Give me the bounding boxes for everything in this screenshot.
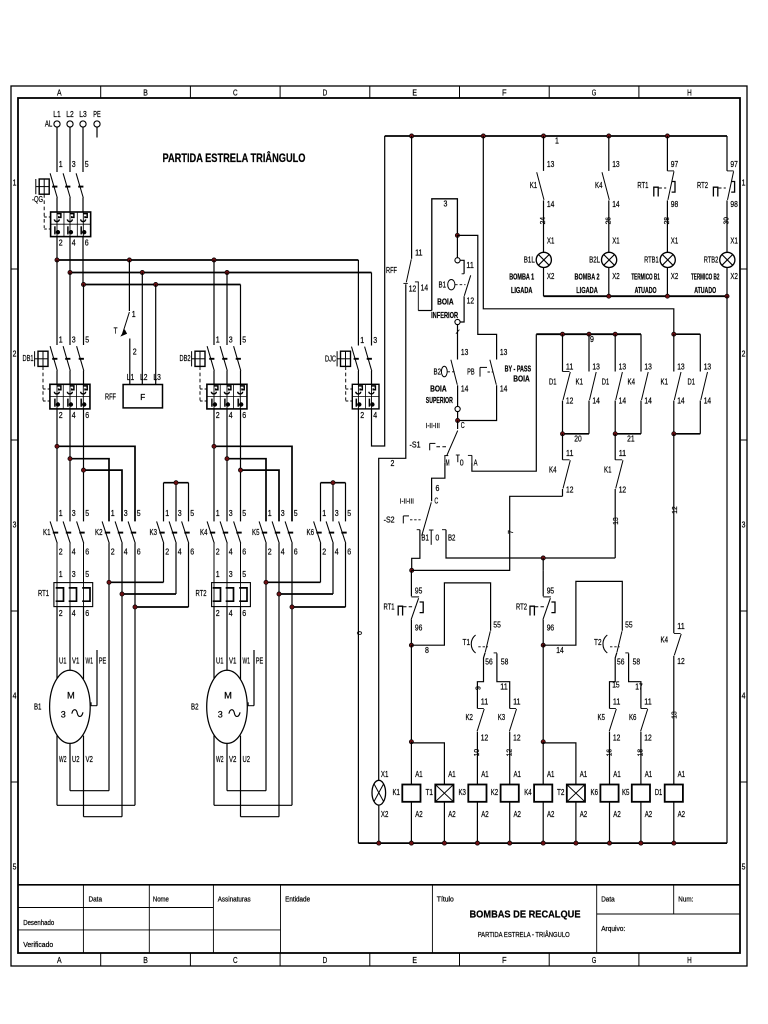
wire rail to RFF contact <box>411 136 413 259</box>
jumper K5-K6 a <box>266 581 321 583</box>
svg-text:RTB2: RTB2 <box>704 255 719 264</box>
breaker DB1 operator <box>38 351 48 366</box>
DJC operator link <box>345 366 347 400</box>
svg-text:5: 5 <box>242 509 246 518</box>
svg-text:K4: K4 <box>549 466 557 475</box>
row boundary ticks <box>11 268 18 270</box>
svg-text:95: 95 <box>415 586 423 595</box>
wire B1 bypass <box>457 235 496 359</box>
S1 terminal 0 <box>456 454 460 456</box>
svg-text:4: 4 <box>281 548 285 557</box>
svg-text:11: 11 <box>500 683 508 692</box>
svg-text:3: 3 <box>229 570 233 579</box>
svg-text:4: 4 <box>13 692 17 701</box>
svg-text:14: 14 <box>547 200 555 209</box>
svg-text:U2: U2 <box>243 755 251 764</box>
svg-text:B2L: B2L <box>589 255 600 264</box>
wire K2-4 down <box>121 543 123 817</box>
svg-text:21: 21 <box>627 435 635 444</box>
svg-text:X2: X2 <box>671 272 679 281</box>
svg-text:11: 11 <box>677 622 685 631</box>
svg-text:B1: B1 <box>439 280 447 289</box>
DJC overload block <box>352 384 379 409</box>
svg-text:13: 13 <box>592 363 600 372</box>
svg-text:A1: A1 <box>514 770 522 779</box>
svg-text:1: 1 <box>216 509 220 518</box>
svg-text:30: 30 <box>722 217 731 224</box>
svg-text:A: A <box>474 459 478 468</box>
svg-text:3: 3 <box>281 509 285 518</box>
QG operator link <box>43 194 45 228</box>
svg-text:K5: K5 <box>622 788 630 797</box>
svg-text:14: 14 <box>612 200 620 209</box>
svg-text:D: D <box>323 88 328 98</box>
S1 terminal A <box>468 454 472 456</box>
wire S2-B1 down <box>412 530 420 571</box>
svg-text:4: 4 <box>335 548 339 557</box>
svg-text:12: 12 <box>566 486 574 495</box>
bridge to T1 contact <box>411 583 490 645</box>
svg-text:1: 1 <box>132 310 136 319</box>
wire L3 to QG <box>82 127 84 172</box>
svg-text:Assinaturas: Assinaturas <box>218 896 251 903</box>
wire bus L3 to RFF L3 <box>155 285 157 385</box>
wire B2-U2 down <box>240 736 242 817</box>
breaker DJC operator <box>341 351 351 366</box>
wire K5-4 down <box>278 543 280 817</box>
svg-text:C: C <box>434 496 438 505</box>
svg-text:B2: B2 <box>448 533 456 542</box>
title block grid <box>18 884 740 886</box>
svg-text:K6: K6 <box>629 713 637 722</box>
contact D1 NO (node 21 branch) <box>614 334 616 371</box>
svg-text:-QG: -QG <box>32 195 43 204</box>
svg-text:5: 5 <box>85 335 89 344</box>
svg-text:RT1: RT1 <box>384 603 395 612</box>
wire B2 to C <box>457 412 459 421</box>
svg-text:C: C <box>233 955 238 965</box>
svg-text:B1: B1 <box>34 703 42 712</box>
svg-text:A1: A1 <box>613 770 621 779</box>
svg-text:INFERIOR: INFERIOR <box>431 311 458 320</box>
svg-text:2: 2 <box>59 411 63 420</box>
contact D1 NC (node 20 branch) <box>562 334 564 371</box>
node dot manual <box>410 568 414 572</box>
svg-text:SUPERIOR: SUPERIOR <box>426 396 453 405</box>
svg-text:D1: D1 <box>655 788 663 797</box>
contact K4 NO (node 21 branch) <box>640 334 642 371</box>
wire S1-A to matrix rail <box>472 334 536 471</box>
wire mark <box>456 330 460 334</box>
svg-text:4: 4 <box>72 239 76 248</box>
jumper DB1 to K2 pole5 <box>57 446 135 521</box>
svg-text:T2: T2 <box>594 638 602 647</box>
svg-text:U1: U1 <box>216 656 224 665</box>
svg-text:3: 3 <box>742 521 746 530</box>
delta jumper B1 b <box>57 804 135 806</box>
svg-text:4: 4 <box>178 548 182 557</box>
wire RFF-14 to node 3 <box>418 310 432 312</box>
wire group to K4 contact <box>673 434 675 633</box>
wire C to S1 <box>457 421 459 430</box>
wire bus L2 end to DJC pole3 <box>371 273 373 346</box>
delta jumper B2 b <box>214 804 292 806</box>
svg-text:T2: T2 <box>557 788 565 797</box>
svg-text:4: 4 <box>72 411 76 420</box>
svg-text:2: 2 <box>360 411 364 420</box>
matrix rail dots <box>560 332 564 336</box>
svg-text:1: 1 <box>360 336 364 345</box>
wire QG blade stubs <box>56 198 58 212</box>
delta jumper B1 c <box>84 816 123 818</box>
wire QG pole1 to bus <box>56 237 58 260</box>
svg-text:6: 6 <box>137 548 141 557</box>
svg-text:DB2: DB2 <box>180 354 191 363</box>
svg-text:5: 5 <box>137 509 141 518</box>
svg-text:A2: A2 <box>481 810 489 819</box>
node 20 bar <box>563 433 590 435</box>
aux contact K3 -> coil K2 <box>497 653 510 708</box>
svg-text:K1: K1 <box>43 528 51 537</box>
svg-text:G: G <box>592 955 597 965</box>
wire K4NC to auto link <box>562 489 564 496</box>
svg-text:0: 0 <box>355 631 364 635</box>
svg-text:3: 3 <box>72 570 76 579</box>
svg-text:3: 3 <box>124 509 128 518</box>
svg-text:58: 58 <box>501 658 509 667</box>
svg-text:BOIA: BOIA <box>437 298 454 307</box>
DJC linkage dashes <box>354 358 359 360</box>
contact RFF blade <box>406 259 411 282</box>
svg-text:7: 7 <box>506 530 515 534</box>
wire B2-W2 down <box>213 735 215 805</box>
lamp return rail <box>544 295 728 297</box>
wire B1-W2 down <box>56 735 58 805</box>
svg-text:3: 3 <box>178 509 182 518</box>
svg-text:13: 13 <box>612 160 620 169</box>
svg-text:5: 5 <box>85 160 89 169</box>
svg-text:5: 5 <box>85 570 89 579</box>
svg-text:D1: D1 <box>549 378 557 387</box>
svg-text:98: 98 <box>730 200 738 209</box>
svg-text:RT2: RT2 <box>516 603 527 612</box>
svg-text:I-II-III: I-II-III <box>426 423 440 430</box>
svg-text:6: 6 <box>294 548 298 557</box>
jumper DB2 to K5 pole5 <box>214 446 292 521</box>
DB2 blade stubs <box>213 371 215 385</box>
svg-text:T: T <box>114 327 118 336</box>
wire K6-4 down <box>332 543 334 594</box>
svg-text:M: M <box>224 691 232 701</box>
neutral rail dots <box>377 841 381 845</box>
wire K5-2 down <box>265 543 267 791</box>
svg-text:K1: K1 <box>661 378 669 387</box>
aux contact K5 -> coil K6 <box>610 653 617 709</box>
contact K1 NC <box>615 459 622 461</box>
selector S2 blade <box>422 502 432 536</box>
thermal contact RT2 95-96 <box>542 570 544 596</box>
svg-text:2: 2 <box>59 239 63 248</box>
svg-text:13: 13 <box>644 363 652 372</box>
svg-text:14: 14 <box>556 646 564 655</box>
float switch B2 pivot circle <box>455 406 460 411</box>
svg-text:15: 15 <box>612 681 620 690</box>
wire S2-B2 line <box>446 530 615 558</box>
svg-text:2: 2 <box>268 548 272 557</box>
svg-text:A2: A2 <box>580 810 588 819</box>
wire DB1-2 to K1 pole1 <box>56 409 58 522</box>
thermal contact RT1 95-96 <box>410 570 412 596</box>
svg-text:1: 1 <box>742 179 746 188</box>
svg-text:12: 12 <box>677 657 685 666</box>
contact K1 NO (alternation) <box>673 334 675 371</box>
svg-text:DJC: DJC <box>325 355 336 364</box>
svg-text:A1: A1 <box>448 770 456 779</box>
svg-text:A2: A2 <box>547 810 555 819</box>
coil K5 <box>632 785 650 802</box>
svg-text:Entidade: Entidade <box>285 896 310 903</box>
selector S1 blade <box>447 431 458 456</box>
svg-text:2: 2 <box>59 609 63 618</box>
svg-text:24: 24 <box>538 217 547 224</box>
svg-text:1: 1 <box>59 509 63 518</box>
svg-text:11: 11 <box>513 698 521 707</box>
wire bus to DB1 pole5 <box>83 285 85 346</box>
svg-text:F: F <box>502 955 507 965</box>
svg-text:2: 2 <box>742 350 746 359</box>
svg-text:K1: K1 <box>604 466 612 475</box>
float B1 <box>448 280 455 290</box>
svg-text:98: 98 <box>671 200 679 209</box>
svg-text:-S2: -S2 <box>384 516 395 525</box>
wire QG pole3 to bus <box>69 237 71 273</box>
wire K3-6 down <box>188 543 190 607</box>
svg-text:1: 1 <box>555 137 559 146</box>
B1 arm lower <box>460 296 464 322</box>
svg-text:K4: K4 <box>200 528 208 537</box>
svg-text:3: 3 <box>61 710 66 720</box>
svg-text:1: 1 <box>216 570 220 579</box>
svg-text:B2: B2 <box>434 367 442 376</box>
svg-text:2: 2 <box>133 348 137 357</box>
svg-text:X1: X1 <box>671 237 679 246</box>
wire K3-2 down <box>163 543 165 582</box>
svg-text:L1: L1 <box>53 110 61 119</box>
svg-text:D1: D1 <box>602 378 610 387</box>
svg-text:RT2: RT2 <box>697 181 708 190</box>
contact B1 blade <box>464 275 470 296</box>
phase failure relay RFF box <box>123 385 162 408</box>
svg-text:3: 3 <box>13 521 17 530</box>
lamp column RTB1 with thermal contact RT1 <box>666 136 668 171</box>
wire B2 to pivot <box>457 385 459 406</box>
svg-text:3: 3 <box>335 509 339 518</box>
svg-text:12: 12 <box>644 734 652 743</box>
B1 11 tick <box>462 273 465 275</box>
DB2 overload block <box>207 384 247 409</box>
svg-text:13: 13 <box>461 348 469 357</box>
jumper K5-K6 b <box>279 593 333 595</box>
node 8 dot <box>409 643 413 647</box>
svg-text:A1: A1 <box>678 770 686 779</box>
aux contact K6 -> coil K5 <box>629 653 641 708</box>
svg-text:9: 9 <box>590 335 594 344</box>
S1 terminal M <box>444 455 448 457</box>
svg-text:-S1: -S1 <box>410 440 421 449</box>
svg-text:K1: K1 <box>576 378 584 387</box>
wire QG pole5 to bus <box>82 237 84 285</box>
svg-text:11: 11 <box>566 449 574 458</box>
svg-text:12: 12 <box>467 296 475 305</box>
wire S2-B2 to RT2 <box>542 558 544 570</box>
svg-text:B: B <box>143 88 148 98</box>
wire K6-2 down <box>320 543 322 582</box>
contact K4 NO (D1 chain) <box>674 633 681 635</box>
svg-text:K6: K6 <box>307 528 315 537</box>
coil K2 <box>501 785 519 802</box>
svg-text:4: 4 <box>742 692 746 701</box>
svg-text:4: 4 <box>229 548 233 557</box>
svg-text:11: 11 <box>481 698 489 707</box>
star bar K6 <box>321 482 346 484</box>
lamp column B2L with contact K4 <box>608 136 610 171</box>
wire S1-M to S2 <box>432 463 445 502</box>
wire DB2-2 to K4 pole1 <box>213 409 215 522</box>
svg-text:1: 1 <box>59 160 63 169</box>
pushbutton PB actuator <box>479 367 481 376</box>
group rail bottom <box>674 433 701 435</box>
svg-text:8: 8 <box>425 646 429 655</box>
svg-text:55: 55 <box>625 620 633 629</box>
svg-text:W1: W1 <box>86 656 94 665</box>
svg-text:BOIA: BOIA <box>513 375 530 384</box>
svg-text:K3: K3 <box>498 713 506 722</box>
svg-text:TERMICO B2: TERMICO B2 <box>691 272 720 281</box>
svg-text:RFF: RFF <box>386 266 397 275</box>
QG overload block <box>51 212 91 237</box>
svg-text:6: 6 <box>85 239 89 248</box>
svg-text:12: 12 <box>409 284 417 293</box>
svg-text:H: H <box>687 955 692 965</box>
svg-text:6: 6 <box>85 609 89 618</box>
wire node14 down <box>542 645 544 742</box>
svg-text:13: 13 <box>547 160 555 169</box>
jumper DB1 to K2 pole3 <box>84 470 123 521</box>
svg-text:A2: A2 <box>448 810 456 819</box>
jumper K5-K6 c <box>292 606 346 608</box>
svg-text:13: 13 <box>670 711 679 718</box>
svg-text:1: 1 <box>165 509 169 518</box>
wire B1-V2 down <box>83 736 85 817</box>
svg-text:B: B <box>143 955 148 965</box>
node 14 dot <box>541 643 545 647</box>
coil T1 (timer) <box>435 785 453 802</box>
wire L1 to QG <box>56 127 58 172</box>
S2 terminal B2 <box>442 529 446 531</box>
node C dot <box>456 418 460 422</box>
svg-text:DB1: DB1 <box>23 354 34 363</box>
svg-text:K5: K5 <box>252 528 260 537</box>
wire bus L1 end to DJC pole1 <box>357 260 359 346</box>
QG linkage dashes <box>52 186 57 188</box>
junction dots DB1 jumpers <box>55 444 59 448</box>
svg-text:B1L: B1L <box>524 255 535 264</box>
svg-text:1: 1 <box>216 335 220 344</box>
svg-text:K6: K6 <box>591 788 599 797</box>
svg-text:K4: K4 <box>628 378 636 387</box>
wire lamp to rail <box>378 805 380 843</box>
svg-text:RT2: RT2 <box>196 589 207 598</box>
svg-text:96: 96 <box>547 623 555 632</box>
node dot pump2 <box>541 556 545 560</box>
svg-text:5: 5 <box>347 509 351 518</box>
svg-text:12: 12 <box>566 396 574 405</box>
contact K1 NO (node 20 branch) <box>588 334 590 371</box>
aux contact K2 -> coil K3 <box>477 653 485 709</box>
lamp column RTB2 with thermal contact RT2 <box>726 136 728 171</box>
svg-text:97: 97 <box>671 160 679 169</box>
svg-text:12: 12 <box>613 734 621 743</box>
rail dots <box>410 134 414 138</box>
svg-text:PE: PE <box>99 656 107 665</box>
svg-text:T1: T1 <box>425 788 433 797</box>
svg-text:B1: B1 <box>421 533 429 542</box>
svg-text:V2: V2 <box>229 755 237 764</box>
svg-text:E: E <box>412 88 417 98</box>
svg-text:12: 12 <box>619 486 627 495</box>
wire L2 to QG <box>69 127 71 172</box>
svg-text:K1: K1 <box>392 788 400 797</box>
svg-text:A1: A1 <box>645 770 653 779</box>
svg-text:BOMBA 2: BOMBA 2 <box>575 272 600 281</box>
svg-text:X1: X1 <box>381 770 389 779</box>
svg-text:2: 2 <box>59 548 63 557</box>
jumper K2-K3 c <box>135 606 189 608</box>
svg-text:BOMBA 1: BOMBA 1 <box>509 272 534 281</box>
svg-text:1: 1 <box>111 509 115 518</box>
matrix rail node 9 <box>536 333 641 335</box>
junction dots DB2 jumpers <box>212 444 216 448</box>
svg-text:1: 1 <box>268 509 272 518</box>
svg-text:K2: K2 <box>465 713 473 722</box>
svg-text:PARTIDA ESTRELA TRIÂNGULO: PARTIDA ESTRELA TRIÂNGULO <box>163 152 306 165</box>
svg-text:11: 11 <box>619 449 627 458</box>
svg-text:6: 6 <box>435 484 439 493</box>
svg-text:3: 3 <box>444 200 448 209</box>
svg-text:6: 6 <box>242 548 246 557</box>
wire node 3 loop <box>432 199 458 311</box>
wire bus to DB2 pole3 <box>226 273 228 346</box>
svg-text:A2: A2 <box>514 810 522 819</box>
svg-text:W1: W1 <box>243 656 251 665</box>
svg-text:RT1: RT1 <box>38 589 49 598</box>
svg-text:M: M <box>446 459 450 468</box>
svg-text:58: 58 <box>633 658 641 667</box>
control neutral rail <box>358 842 727 844</box>
wire bus L3 end to DB2 pole5 <box>240 285 242 346</box>
svg-text:16: 16 <box>604 749 613 756</box>
svg-text:14: 14 <box>619 396 627 405</box>
svg-text:56: 56 <box>485 658 493 667</box>
svg-text:26: 26 <box>603 217 612 224</box>
delta jumper B2 c <box>241 816 280 818</box>
wire K6-6 down <box>345 543 347 607</box>
svg-text:14: 14 <box>421 284 429 293</box>
svg-text:G: G <box>592 88 597 98</box>
svg-text:Nome: Nome <box>153 896 169 903</box>
wire B1-U2 down <box>69 743 71 790</box>
svg-text:A2: A2 <box>613 810 621 819</box>
